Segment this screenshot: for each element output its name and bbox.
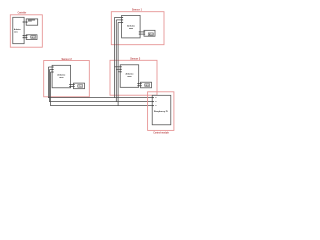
group frame Controller — [10, 15, 42, 47]
pin U2 left 3 — [122, 21, 123, 24]
raspberry pi box — [152, 95, 171, 125]
pin rpi bus3 — [152, 104, 154, 107]
wire U3 to gas sensor a — [71, 84, 74, 86]
wire U4 to gas sensor a — [139, 83, 141, 85]
wire bus line 1 (sensor 2 down and right to raspberry pi) — [48, 67, 152, 98]
group frame local master — [148, 92, 174, 131]
pin S2 left b — [74, 85, 75, 88]
wire U1 to radio — [24, 21, 26, 23]
wire stub U3 pin2 — [50, 69, 53, 71]
wire stub U2 pin1 — [115, 16, 122, 18]
wire U2 to gas sensor b — [140, 33, 144, 35]
pin S3 left a — [141, 82, 142, 85]
group frame Sensor 2 — [44, 61, 90, 97]
wire drop sensor1 pin2 to bus2 — [115, 20, 117, 102]
svg-text:nano: nano — [129, 28, 134, 30]
pin S0 left b — [26, 36, 27, 39]
pin U1 right (sensor a) — [23, 34, 25, 37]
pin U2 right b — [139, 33, 140, 36]
pin U3 right a — [69, 83, 70, 86]
arduino U1 (Arduino nano, controller) — [13, 17, 24, 43]
svg-text:MQ-2: MQ-2 — [149, 34, 153, 36]
pin U3 left 2 — [52, 68, 53, 71]
arduino U2 (Arduino nano, sensor 1) — [122, 15, 141, 38]
wire drop sensor1 pin1 to bus1 — [114, 17, 116, 97]
wire stub U2 pin3 — [118, 21, 122, 23]
label plate MQ-2 (sensor 3) — [145, 84, 150, 87]
label plate MQ-2 (sensor 1) — [148, 33, 153, 35]
radio text line1 — [28, 19, 35, 22]
pin U4 left 3 — [120, 70, 121, 73]
pin S3 left b — [141, 84, 142, 87]
svg-text:Control module: Control module — [153, 130, 169, 134]
svg-text:MQ-2: MQ-2 — [78, 86, 82, 88]
svg-text:Controller: Controller — [18, 10, 27, 14]
wire U4 to gas sensor b — [139, 85, 141, 87]
wire U1 to gas sensor a — [24, 35, 26, 37]
pin rpi bus1 — [152, 96, 154, 99]
label plate MQ-2 (sensor 2) — [78, 85, 83, 88]
wire bus line 2 — [50, 70, 153, 102]
pin U4 left 2 — [120, 68, 121, 71]
wire U3 to gas sensor b — [71, 86, 74, 88]
pin U2 right a — [139, 30, 140, 33]
pin rpi bus2 — [152, 100, 154, 103]
pin microlabel 1 — [155, 96, 157, 99]
svg-text:Sensor 1: Sensor 1 — [132, 7, 142, 11]
radio text line2 — [28, 20, 32, 23]
pin U4 left 1 — [120, 65, 121, 68]
wire U1 to gas sensor b — [24, 37, 26, 39]
pin microlabel 3 — [155, 104, 157, 107]
pin microlabel 2 — [155, 100, 157, 103]
svg-text:nano: nano — [59, 77, 64, 79]
label plate MQ-2 (controller) — [31, 36, 36, 39]
wire stub U3 pin1 — [48, 66, 52, 68]
svg-text:Raspberry Pi: Raspberry Pi — [154, 110, 168, 113]
pin U1 right (radio) — [23, 21, 25, 24]
pin U2 left 1 — [122, 16, 123, 19]
pin S0 left a — [26, 34, 27, 37]
svg-text:MQ-2: MQ-2 — [145, 85, 149, 87]
svg-text:nano: nano — [127, 76, 132, 78]
pin S2 left a — [74, 83, 75, 86]
gas sensor S3 (MQ-2, sensor 3) — [141, 82, 152, 88]
pin S1 left a — [144, 30, 145, 33]
wire stub U2 pin2 — [116, 19, 121, 21]
arduino U4 (Arduino nano, sensor 3) — [120, 65, 139, 88]
pin U3 left 3 — [52, 71, 53, 74]
wire bus line 3 — [51, 72, 153, 106]
wire tap U4 pin3 to bus — [118, 71, 120, 73]
pin U4 right b — [137, 84, 138, 87]
wire U2 to gas sensor a — [140, 31, 144, 33]
arduino U3 (Arduino nano, sensor 2) — [52, 65, 71, 88]
wire drop sensor1 pin3 to bus3 — [117, 22, 119, 105]
wire tap U4 pin1 to bus — [115, 66, 121, 68]
pin U1 right (sensor b) — [23, 36, 25, 39]
group frame Sensor 1 — [111, 12, 164, 45]
group frame Sensor 3 — [110, 60, 157, 95]
gas sensor S2 (MQ-2, sensor 2) — [74, 83, 85, 89]
pin S1 left b — [144, 33, 145, 36]
pin U3 right b — [69, 85, 70, 88]
wire stub U3 pin3 — [51, 71, 53, 73]
pin A1 left — [26, 22, 27, 23]
gas sensor S0 (MQ-2, controller) — [26, 35, 37, 40]
gas sensor S1 (MQ-2, sensor 1) — [144, 30, 155, 36]
pin U2 left 2 — [122, 18, 123, 21]
wire tap U4 pin2 to bus — [116, 68, 120, 70]
pin U3 left 1 — [52, 66, 53, 69]
svg-text:nano: nano — [14, 31, 18, 33]
pin U4 right a — [137, 82, 138, 85]
svg-text:MQ-2: MQ-2 — [31, 37, 35, 39]
radio module A1 (nRF24L01) — [26, 19, 38, 25]
